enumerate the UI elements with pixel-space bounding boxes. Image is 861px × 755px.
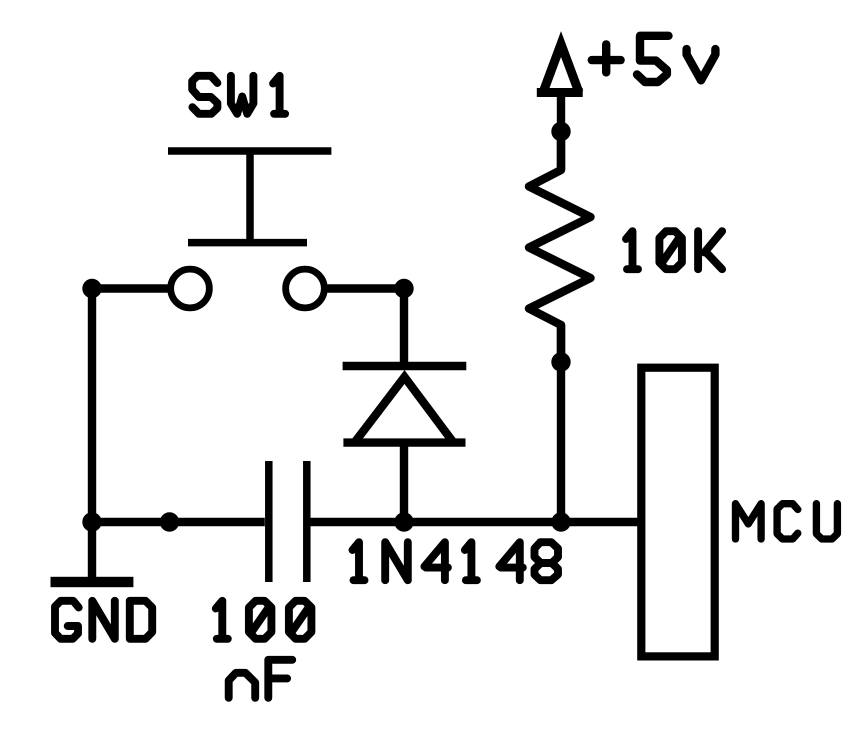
diode cathode lead from node A: [400, 289, 408, 367]
junction dot node A (switch to diode): [394, 279, 413, 298]
switch SW1 actuator bottom bar: [188, 239, 307, 247]
switch SW1 left contact circle: [171, 269, 210, 308]
wire left vertical down to ground: [88, 289, 96, 579]
resistor zigzag body: [529, 135, 591, 360]
ground symbol bar: [51, 577, 134, 587]
power +5v arrow symbol sides: [543, 44, 579, 93]
junction dot resistor at signal net: [551, 512, 570, 531]
switch SW1 actuator stem: [246, 151, 254, 243]
resistor lower lead: [557, 325, 565, 522]
diode anode lead to signal net: [400, 443, 408, 522]
junction dot resistor lower lead: [551, 352, 570, 371]
power +5v arrow symbol base: [537, 88, 583, 97]
wire signal net: capacitor to MCU pin: [307, 518, 641, 526]
diode triangle base: [343, 438, 465, 446]
label SW1: [192, 76, 285, 114]
capacitor left plate: [265, 461, 273, 582]
label +5v letter v: [687, 49, 716, 80]
diode triangle sides (anode, pointing up): [355, 377, 454, 443]
MCU block rectangle: [641, 368, 714, 657]
label +5v plus sign: [592, 44, 621, 72]
label MCU: [736, 504, 838, 539]
label 100: [216, 601, 312, 639]
junction dot diode at signal net: [394, 512, 413, 531]
label GND: [55, 601, 152, 639]
label nF: [229, 660, 293, 698]
junction dot on bottom wire: [160, 512, 179, 531]
switch SW1 actuator top bar: [168, 147, 331, 155]
junction dot bottom-left corner: [82, 512, 101, 531]
wire bottom net: ground node to capacitor: [92, 518, 265, 526]
wire from SW1 right contact to node A: [327, 284, 404, 292]
junction dot left node: [82, 279, 101, 298]
label 10K: [626, 231, 722, 269]
capacitor right plate: [303, 461, 311, 582]
switch SW1 right contact circle: [286, 269, 325, 308]
junction dot below +5v symbol: [551, 122, 570, 141]
label 1N4148: [353, 542, 559, 580]
wire from left node to SW1 left contact: [92, 284, 168, 292]
diode cathode bar: [343, 362, 467, 370]
label +5v digit 5: [637, 36, 669, 82]
wire +5v to resistor: [557, 93, 565, 171]
